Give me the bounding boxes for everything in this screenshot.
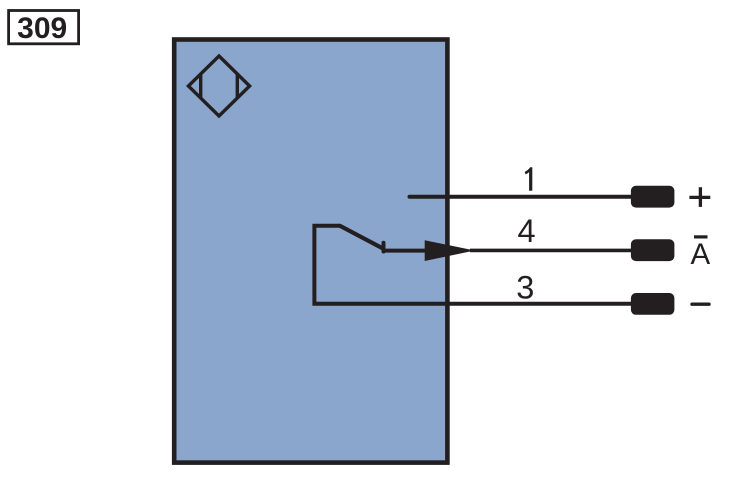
terminal pin 3: [631, 293, 675, 315]
minus symbol (supply -): [692, 303, 709, 306]
arrow (output): [425, 240, 475, 261]
terminal pin 4: [631, 239, 675, 261]
contact nub: [382, 243, 386, 252]
switch bracket (internal contact): [314, 226, 631, 304]
svg-text:3: 3: [516, 270, 534, 306]
pin label 1: [525, 167, 533, 191]
terminal pin 1: [631, 186, 675, 208]
svg-text:A: A: [691, 238, 711, 271]
sensor body: [174, 40, 447, 463]
figure number box 309: [9, 11, 79, 45]
svg-text:309: 309: [17, 12, 67, 45]
wire from contact to arrow: [383, 249, 428, 253]
svg-text:4: 4: [518, 213, 536, 249]
output label A-bar: [691, 237, 711, 271]
wire 4: [470, 249, 632, 253]
switch lever: [340, 226, 383, 249]
wire 1: [410, 195, 632, 199]
logo diamond: [188, 56, 249, 116]
plus symbol (supply +): [689, 187, 710, 207]
